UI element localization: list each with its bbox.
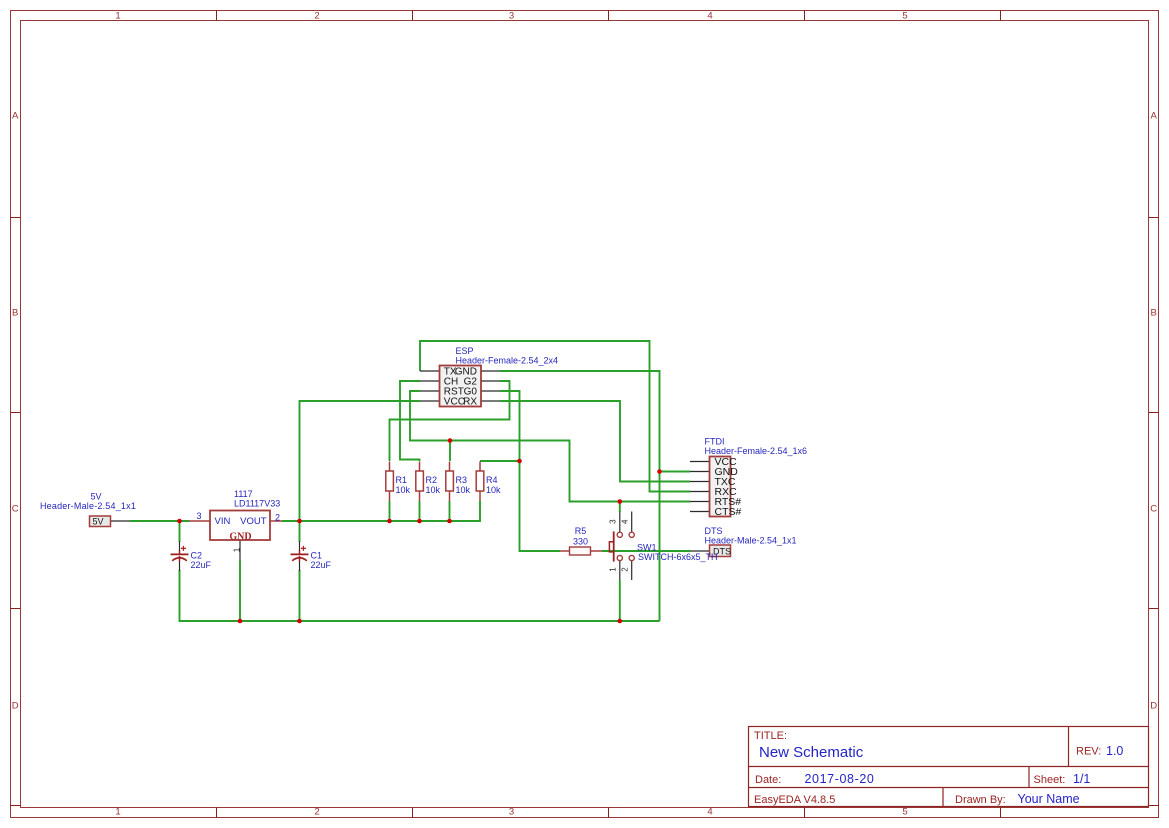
svg-text:FTDI: FTDI: [705, 437, 725, 447]
frame column ticks top: [217, 11, 1001, 21]
FTDI pin names: [715, 456, 742, 518]
node GND rail regulator junction: [238, 619, 243, 624]
resistor R3: [446, 462, 454, 502]
svg-text:Header-Female-2.54_2x4: Header-Female-2.54_2x4: [456, 356, 559, 366]
svg-text:R2: R2: [426, 475, 438, 485]
wire R2 bottom: [419, 501, 421, 521]
svg-text:Drawn By:: Drawn By:: [955, 794, 1006, 806]
svg-text:10k: 10k: [456, 485, 471, 495]
svg-text:1: 1: [609, 567, 618, 572]
pins FTDI: [690, 461, 710, 463]
wire R4 top to G0 net: [480, 460, 520, 462]
svg-text:SWITCH-6x6x5_TH: SWITCH-6x6x5_TH: [638, 552, 718, 562]
frame row labels right: [1150, 111, 1157, 712]
svg-text:2: 2: [620, 567, 629, 572]
node RTS#/SW1 junction: [618, 499, 623, 504]
title block box: [749, 727, 1149, 807]
svg-text:3: 3: [509, 807, 514, 818]
svg-text:VOUT: VOUT: [240, 516, 267, 527]
svg-text:C: C: [1150, 504, 1157, 515]
svg-text:10k: 10k: [426, 485, 441, 495]
header DTS body: [710, 545, 731, 557]
pin DTS: [690, 550, 710, 552]
svg-text:C: C: [12, 504, 19, 515]
svg-text:4: 4: [620, 519, 629, 524]
svg-text:22uF: 22uF: [191, 560, 212, 570]
wire G0 net ESP down to R5: [500, 391, 560, 551]
regulator U1 1117 body: [210, 511, 270, 541]
pins ESP right: [481, 370, 500, 372]
svg-text:10k: 10k: [396, 485, 411, 495]
frame column labels bottom: [115, 807, 907, 818]
svg-text:10k: 10k: [486, 485, 501, 495]
wire R1 bottom: [389, 501, 391, 521]
svg-text:22uF: 22uF: [311, 560, 332, 570]
svg-text:330: 330: [573, 537, 588, 547]
node R3 bottom junction: [447, 519, 452, 524]
svg-text:C1: C1: [311, 551, 323, 561]
svg-text:2: 2: [314, 807, 319, 818]
svg-text:LD1117V33: LD1117V33: [234, 499, 280, 509]
svg-text:Header-Female-2.54_1x6: Header-Female-2.54_1x6: [705, 446, 808, 456]
wire 3.3V rail VOUT to R4: [282, 520, 480, 522]
svg-text:1/1: 1/1: [1073, 772, 1090, 786]
svg-text:ESP: ESP: [456, 346, 474, 356]
wire RST net ESP to FTDI RTS#: [410, 391, 690, 502]
svg-text:3: 3: [509, 11, 514, 22]
svg-text:R1: R1: [396, 475, 408, 485]
switch SW1 pin numbers: [609, 519, 630, 572]
pin C2 leads: [179, 541, 181, 551]
wire regulator GND pin to rail: [239, 561, 241, 622]
wire 5V header to VIN: [130, 520, 189, 522]
wire RST branch to R3 top: [449, 441, 451, 462]
regulator VIN pin 3: [189, 520, 210, 522]
switch SW1 contacts: [617, 532, 634, 560]
svg-text:2017-08-20: 2017-08-20: [805, 772, 875, 786]
svg-text:A: A: [1151, 111, 1158, 122]
wire RTS# branch to SW1 pin3: [619, 502, 621, 513]
node R1 bottom junction: [387, 519, 392, 524]
svg-text:B: B: [1151, 308, 1157, 319]
node 5V/C2 junction: [177, 519, 182, 524]
resistor R4: [476, 462, 484, 502]
svg-text:1.0: 1.0: [1106, 744, 1123, 758]
svg-text:5V: 5V: [90, 492, 101, 502]
capacitor C1: [291, 546, 309, 562]
wire GND net ESP to FTDI GND to rail: [500, 371, 660, 621]
capacitor C2: [171, 546, 189, 562]
wire R3 bottom: [449, 501, 451, 521]
ESP pin names: [444, 367, 478, 408]
svg-text:Sheet:: Sheet:: [1034, 774, 1066, 786]
switch SW1 actuator: [609, 531, 613, 561]
frame row labels left: [12, 111, 19, 712]
svg-text:RX: RX: [463, 397, 477, 408]
svg-text:5: 5: [902, 11, 907, 22]
resistor R2: [416, 462, 424, 502]
node RST/R3 junction: [448, 438, 453, 443]
wire SW1 pin1 to rail: [619, 580, 621, 621]
wire C1 top branch: [299, 521, 301, 542]
svg-text:3: 3: [196, 511, 201, 521]
wire GND stub to FTDI GND pin: [660, 471, 691, 473]
svg-text:TITLE:: TITLE:: [754, 730, 787, 742]
wire RX net ESP to FTDI TXC: [500, 401, 690, 482]
svg-text:Date:: Date:: [755, 774, 781, 786]
node G0/R4 junction: [517, 459, 522, 464]
wire R5 to DTS: [602, 550, 690, 552]
svg-text:GND: GND: [229, 531, 251, 542]
wire CH net ESP to R2 top: [400, 381, 420, 461]
svg-text:Header-Male-2.54_1x1: Header-Male-2.54_1x1: [705, 536, 797, 546]
header P1 5V box: [90, 516, 111, 527]
regulator VOUT pin 2: [270, 520, 282, 522]
svg-text:Header-Male-2.54_1x1: Header-Male-2.54_1x1: [40, 501, 136, 511]
svg-text:4: 4: [707, 807, 712, 818]
svg-text:REV:: REV:: [1076, 746, 1101, 758]
wire ground rail: [179, 620, 660, 622]
resistor R1: [386, 462, 394, 502]
svg-text:D: D: [1150, 701, 1157, 712]
resistor R5: [560, 547, 602, 555]
pin 5V header: [111, 520, 131, 522]
frame row ticks right: [1149, 218, 1159, 806]
pins SW1: [619, 512, 621, 533]
node GND rail SW1 junction: [618, 619, 623, 624]
node GND rail C1 junction: [297, 619, 302, 624]
svg-text:4: 4: [707, 11, 712, 22]
svg-text:5: 5: [902, 807, 907, 818]
wire G2 net ESP to R1 top: [390, 381, 510, 461]
wire C1 bottom to rail: [299, 570, 301, 621]
frame column labels top: [115, 11, 907, 22]
svg-text:5V: 5V: [93, 517, 104, 527]
svg-text:EasyEDA V4.8.5: EasyEDA V4.8.5: [754, 794, 835, 806]
svg-text:1117: 1117: [234, 489, 253, 499]
header FTDI body: [710, 457, 731, 517]
wire C2 top branch: [179, 521, 181, 542]
node GND/FTDI junction: [657, 469, 662, 474]
svg-text:New Schematic: New Schematic: [759, 744, 864, 761]
wire R4 bottom: [479, 501, 481, 522]
svg-text:1: 1: [233, 547, 242, 552]
wire C2 bottom to ground rail: [179, 570, 181, 622]
pin regulator GND: [239, 540, 241, 561]
svg-text:R4: R4: [486, 475, 498, 485]
svg-text:2: 2: [275, 513, 280, 523]
frame row ticks left: [11, 218, 21, 806]
svg-text:R3: R3: [456, 475, 468, 485]
pin C1 leads: [299, 541, 301, 551]
svg-text:C2: C2: [191, 551, 203, 561]
svg-text:A: A: [12, 111, 19, 122]
frame column ticks bottom: [217, 808, 1001, 818]
svg-text:Your Name: Your Name: [1018, 792, 1080, 806]
svg-text:DTS: DTS: [705, 526, 723, 536]
wire 3.3V riser to ESP VCC: [300, 401, 421, 521]
svg-text:1: 1: [115, 11, 120, 22]
node VOUT/C1/ESP-VCC junction: [297, 519, 302, 524]
header ESP body: [440, 366, 482, 407]
node R2 bottom junction: [417, 519, 422, 524]
svg-text:VIN: VIN: [215, 516, 231, 527]
svg-text:2: 2: [314, 11, 319, 22]
svg-text:D: D: [12, 701, 19, 712]
svg-text:CTS#: CTS#: [715, 506, 742, 518]
svg-text:R5: R5: [575, 526, 587, 536]
svg-text:1: 1: [115, 807, 120, 818]
svg-text:VCC: VCC: [444, 397, 465, 408]
wire TX net ESP to FTDI RXC: [420, 341, 690, 492]
pins ESP left: [420, 370, 440, 372]
svg-text:B: B: [12, 308, 18, 319]
svg-text:3: 3: [609, 519, 618, 524]
